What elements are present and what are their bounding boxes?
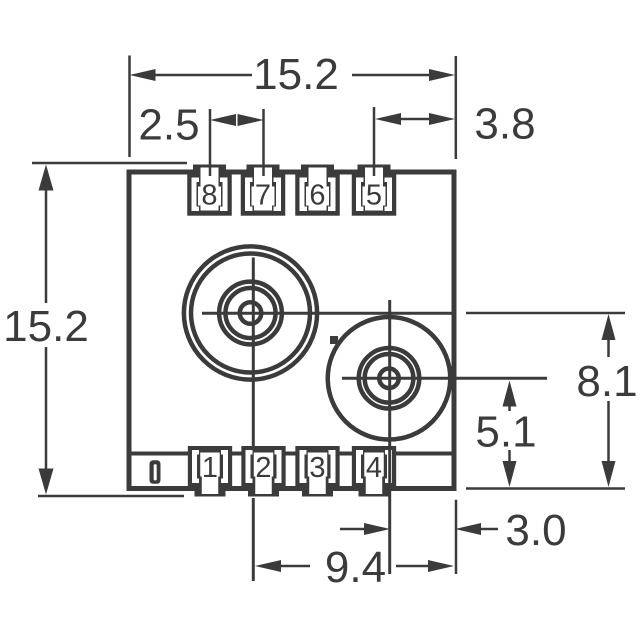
- pin 6 (top terminal): [295, 165, 340, 216]
- svg-text:2: 2: [255, 452, 271, 484]
- rotor slot indicator (bottom-left capsule): [150, 460, 161, 484]
- large rotor vertical centerline (lower, extension to 9.4 dim): [252, 498, 255, 581]
- svg-text:3.0: 3.0: [505, 506, 566, 555]
- svg-text:8.1: 8.1: [576, 357, 637, 406]
- svg-text:5: 5: [366, 179, 382, 211]
- svg-text:2.5: 2.5: [138, 101, 199, 150]
- svg-text:6: 6: [309, 179, 325, 211]
- dim 2.5 (pin pitch): [138, 101, 263, 177]
- bottom terminal strip line: [132, 452, 452, 456]
- pin 8 (top terminal): [187, 165, 232, 216]
- dim 15.2 (top width): [130, 50, 456, 159]
- svg-text:8: 8: [201, 179, 217, 211]
- svg-text:1: 1: [202, 452, 218, 484]
- svg-text:3.8: 3.8: [474, 100, 535, 149]
- svg-text:15.2: 15.2: [3, 302, 89, 351]
- pin 3 (bottom terminal): [295, 446, 339, 497]
- pin 7 (top terminal): [241, 165, 286, 216]
- svg-text:7: 7: [255, 179, 271, 211]
- small rotor (side adjuster) circles: [328, 317, 451, 440]
- dim 15.2 (left height): [3, 163, 187, 496]
- large rotor horizontal centerline: [202, 312, 453, 315]
- svg-text:3: 3: [309, 452, 325, 484]
- svg-text:4: 4: [366, 452, 382, 484]
- pin 1 (bottom terminal): [188, 446, 232, 497]
- dim 8.1 (right height): [466, 313, 638, 489]
- pin 2 (bottom terminal): [241, 446, 285, 497]
- large rotor (main adjuster) circles: [184, 246, 317, 379]
- dim 9.4 (rotor center to right edge): [255, 543, 454, 592]
- pin 5 (top terminal): [352, 165, 397, 216]
- dim 3.8 (pin 5 to edge): [374, 100, 536, 177]
- small rotor horizontal centerline: [342, 377, 547, 380]
- small rotor vertical centerline (extension to 3.0 dim): [388, 300, 391, 574]
- large rotor vertical centerline (upper): [252, 258, 255, 447]
- svg-text:9.4: 9.4: [325, 543, 386, 592]
- dim 3.0 (small rotor to right edge): [340, 500, 567, 574]
- package body outline: [129, 172, 454, 489]
- dim 5.1 (small rotor to bottom): [475, 381, 536, 488]
- pin 4 (bottom terminal): [352, 446, 396, 497]
- svg-text:5.1: 5.1: [475, 408, 536, 457]
- svg-text:15.2: 15.2: [253, 50, 339, 99]
- rotor position marker dot: [330, 336, 338, 344]
